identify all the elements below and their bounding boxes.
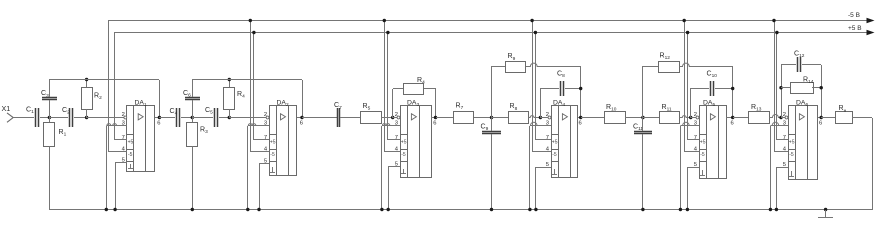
resistor R7: [454, 112, 474, 124]
junction C9 on ground rail: [490, 208, 493, 211]
stage1 feedback wire C3 to DA1 output: [49, 79, 159, 81]
resistor R9: [506, 62, 526, 73]
wire R12 right segment with hop over supply: [680, 63, 733, 66]
junction DA1 pin5 on ground rail: [113, 208, 116, 211]
svg-text:7: 7: [264, 135, 267, 141]
junction R14 right on vertical: [820, 86, 823, 89]
svg-text:6: 6: [157, 120, 160, 126]
capacitor C7: [337, 108, 339, 127]
wire DA4 inverting node up to C8: [540, 88, 542, 118]
op-amp DA4 pin 7 wire to +5V rail: [535, 139, 551, 141]
op-amp DA4 inverting input bubble pin 2: [548, 116, 551, 119]
svg-text:7: 7: [395, 135, 398, 141]
op-amp DA3 output pin 6 wire: [431, 117, 436, 119]
op-amp DA2 inverting input bubble pin 2: [266, 116, 269, 119]
svg-text:7: 7: [783, 135, 786, 141]
wire R4 stage3 down to output node: [435, 89, 437, 118]
junction R4 tap on signal: [228, 116, 231, 119]
wire R7 to node C: [474, 117, 492, 119]
op-amp DA6 inverting input bubble pin 2: [785, 116, 788, 119]
wire DA6 output to Rn: [821, 117, 836, 119]
node DA4 output junction: [579, 116, 582, 119]
svg-text:-5: -5: [128, 152, 133, 158]
wire R12 left segment: [643, 66, 658, 68]
junction R2 tap on signal: [85, 116, 88, 119]
op-amp DA6 ground cell symbol: [791, 171, 793, 176]
svg-text:+5: +5: [552, 140, 558, 146]
svg-text:6: 6: [731, 120, 734, 126]
op-amp DA2 pin 4 wire to -5V rail: [250, 151, 269, 153]
junction R14 left on vertical: [779, 86, 782, 89]
svg-text:+5: +5: [700, 140, 706, 146]
connector X1 chevron: [7, 113, 13, 122]
wire R12 feedback down to DA5 output node: [732, 66, 734, 118]
wire node D to R11: [643, 117, 659, 119]
wire R9 left segment: [492, 66, 505, 68]
capacitor C6: [185, 97, 200, 99]
capacitor C5: [214, 108, 216, 127]
junction DA5 supply on -5V rail: [683, 19, 686, 22]
node DA6 output junction: [820, 116, 823, 119]
ground symbol: [825, 210, 827, 218]
svg-text:6: 6: [433, 120, 436, 126]
wire Rn to right corner: [852, 117, 872, 119]
op-amp DA1 amplifier triangle symbol: [138, 114, 143, 120]
op-amp DA3 amplifier triangle symbol: [411, 114, 416, 120]
stage1 feedback wire down to output node: [159, 80, 161, 118]
svg-text:X1: X1: [2, 104, 11, 113]
op-amp DA6 output pin 6 wire: [818, 117, 821, 119]
wire C8 left segment: [540, 88, 559, 90]
power rail +5V arrowhead: [867, 30, 875, 36]
capacitor C10: [710, 81, 712, 96]
op-amp DA2 ground cell symbol: [272, 167, 274, 172]
wire R14 left segment: [781, 87, 791, 89]
svg-text:7: 7: [694, 135, 697, 141]
resistor R3: [187, 123, 198, 147]
node B junction: [191, 116, 194, 119]
op-amp DA6 amplifier triangle symbol: [799, 114, 804, 120]
wire node B to C5: [192, 117, 213, 119]
op-amp DA5 pin 3 wire to ground rail: [680, 122, 699, 125]
op-amp DA2 pin 5 wire to ground rail: [259, 163, 269, 165]
wire inverting node to DA5 pin 2: [691, 117, 697, 119]
op-amp DA3 ground cell symbol: [403, 169, 405, 174]
op-amp DA6 pin 7 wire to +5V rail: [777, 139, 788, 141]
op-amp DA5 pin 7 wire to +5V rail: [688, 139, 699, 141]
wire R13 to DA6 inverting node with hop: [769, 115, 781, 118]
op-amp DA4 amplifier triangle symbol: [562, 114, 567, 120]
op-amp DA2 pin 3 wire to ground rail: [248, 124, 269, 126]
resistor R14: [791, 83, 814, 94]
wire node A to C2: [49, 117, 68, 119]
wire C6 to stage2 feedback wire: [192, 80, 194, 97]
node DA5 inverting input junction: [689, 116, 692, 119]
power rail +5V net: [115, 32, 870, 34]
junction DA6 pin5 on ground rail: [775, 208, 778, 211]
junction R3 on ground rail: [191, 208, 194, 211]
resistor R8: [509, 112, 529, 124]
junction C11 on ground rail: [641, 208, 644, 211]
wire DA5 output to R13: [733, 117, 749, 119]
svg-text:+5: +5: [128, 140, 134, 146]
wire C7 to R5: [340, 117, 360, 119]
capacitor C8: [560, 81, 562, 96]
svg-text:+5: +5: [401, 140, 407, 146]
wire C8 right segment: [565, 88, 581, 90]
wire C12 down to DA6 output node: [821, 65, 823, 118]
capacitor C11: [634, 131, 652, 133]
wire R2 bottom to signal: [86, 109, 88, 118]
wire DA2 output to C7: [302, 117, 337, 119]
stage2 feedback wire C6 to DA2 output: [192, 79, 302, 81]
junction DA3 supply on -5V rail: [383, 19, 386, 22]
svg-text:+5 В: +5 В: [848, 25, 862, 32]
wire R4 stage3 right segment: [424, 88, 436, 90]
junction C8 wire on feedback vertical: [579, 87, 582, 90]
node DA2 output junction: [300, 116, 303, 119]
node DA3 output junction: [434, 116, 437, 119]
op-amp DA2 output pin 6 wire: [297, 117, 302, 119]
wire R4 top to feedback wire: [229, 80, 231, 87]
resistor R11: [660, 112, 680, 124]
op-amp DA5 amplifier triangle symbol: [710, 114, 715, 120]
wire DA6 inverting node up to C12 level: [781, 65, 783, 118]
capacitor C12: [797, 57, 799, 72]
wire R3 to ground rail: [192, 146, 194, 210]
junction DA5 pin3 on ground rail: [679, 208, 682, 211]
wire C9 to ground rail: [491, 134, 493, 210]
junction DA3 pin5 on ground rail: [387, 208, 390, 211]
wire R2 tap to DA1 pin 2: [87, 117, 125, 119]
junction DA4 pin3 on ground rail: [528, 208, 531, 211]
junction DA3 pin3 on ground rail: [380, 208, 383, 211]
capacitor C3: [42, 97, 57, 99]
wire R5 to DA3 inverting node: [381, 117, 393, 119]
wire node C up to R9 wire: [491, 66, 493, 118]
wire R11 to DA5 inverting node with hop: [680, 116, 691, 118]
wire C10 left segment: [691, 88, 709, 90]
op-amp DA1 pin 7 wire to +5V rail: [115, 139, 127, 141]
op-amp DA1 pin 5 wire to ground rail: [115, 162, 127, 164]
op-amp DA3 pin 7 wire to +5V rail: [388, 139, 400, 141]
node DA3 inverting input junction: [391, 116, 394, 119]
junction DA2 pin5 on ground rail: [257, 208, 260, 211]
junction DA2 pin3 on ground rail: [246, 208, 249, 211]
junction DA4 supply on +5V rail: [534, 31, 537, 34]
op-amp DA1 inverting input bubble pin 2: [124, 116, 127, 119]
svg-text:-5: -5: [789, 152, 794, 158]
svg-text:6: 6: [579, 120, 582, 126]
junction DA5 pin5 on ground rail: [686, 208, 689, 211]
op-amp DA3 box: [401, 106, 432, 178]
wire R4 stage3 left segment: [393, 88, 403, 90]
junction R4 on stage2 feedback wire: [228, 78, 231, 81]
wire R9 right segment with hop over supply: [526, 63, 581, 66]
wire node D up to R12 wire: [642, 66, 644, 118]
wire DA4 output to R10: [581, 117, 604, 119]
junction C10 wire on feedback vertical: [731, 87, 734, 90]
junction ground symbol on rail: [824, 208, 827, 211]
wire node B up to C6: [192, 100, 194, 118]
svg-text:7: 7: [546, 135, 549, 141]
wire R9 feedback down to DA4 output node: [580, 66, 582, 118]
svg-text:-5: -5: [700, 152, 705, 158]
op-amp DA1 pin 3 wire to ground rail: [106, 124, 127, 126]
svg-text:-5: -5: [270, 152, 275, 158]
junction DA5 supply on +5V rail: [686, 31, 689, 34]
op-amp DA1 pin 4 wire to -5V rail: [109, 151, 127, 153]
junction DA2 supply on -5V rail: [249, 19, 252, 22]
resistor R4 stage3: [404, 84, 424, 95]
wire C4 to node B: [181, 117, 192, 119]
op-amp DA6 pin 5 wire to ground rail: [776, 167, 788, 169]
junction DA6 pin3 on ground rail: [769, 208, 772, 211]
wire node C to R8: [492, 117, 508, 119]
resistor R5: [361, 112, 382, 124]
junction DA1 pin3 on ground rail: [105, 208, 108, 211]
wire inverting node to DA4 pin 2: [540, 117, 549, 119]
op-amp DA4 ground cell symbol: [554, 169, 556, 174]
wire R10 to node D: [625, 117, 643, 119]
node DA1 output junction: [158, 116, 161, 119]
op-amp DA1 ground cell symbol: [130, 164, 132, 168]
op-amp DA2 box: [270, 106, 297, 176]
svg-text:+5: +5: [270, 140, 276, 146]
svg-text:6: 6: [300, 120, 303, 126]
node C junction: [490, 116, 493, 119]
wire R4 tap to DA2 pin 2: [229, 117, 268, 119]
svg-text:6: 6: [819, 120, 822, 126]
wire DA3 output to R7: [436, 117, 453, 119]
resistor R1: [44, 123, 55, 147]
wire C1 to node A: [40, 117, 49, 119]
svg-text:5: 5: [546, 162, 549, 168]
junction DA6 supply on +5V rail: [775, 31, 778, 34]
svg-text:7: 7: [122, 135, 125, 141]
op-amp DA5 ground cell symbol: [702, 170, 704, 175]
capacitor C9: [482, 131, 501, 133]
wire inverting node to DA6 pin 2: [781, 117, 786, 119]
wire right corner down to ground rail: [872, 118, 874, 210]
junction DA2 supply on +5V rail: [252, 31, 255, 34]
op-amp DA5 pin 5 wire to ground rail: [687, 167, 699, 169]
op-amp DA2 pin 7 wire to +5V rail: [254, 139, 269, 141]
wire node C down to C9: [491, 118, 493, 131]
node A junction: [48, 116, 51, 119]
op-amp DA4 pin 5 wire to ground rail: [536, 167, 551, 169]
svg-text:-5: -5: [401, 152, 406, 158]
wire node B down to R3: [192, 118, 194, 122]
junction DA3 supply on +5V rail: [386, 31, 389, 34]
wire R1 to ground rail: [49, 146, 51, 210]
svg-text:-5 В: -5 В: [848, 12, 860, 19]
node DA5 output junction: [731, 116, 734, 119]
wire C11 to ground rail: [642, 134, 644, 210]
resistor R4 stage2: [224, 88, 235, 110]
node DA6 inverting input junction: [779, 116, 782, 119]
wire node A up to C3: [49, 100, 51, 118]
wire C12 right segment: [802, 64, 821, 66]
op-amp DA3 inverting input bubble pin 2: [397, 116, 400, 119]
capacitor C4: [176, 108, 178, 127]
op-amp DA2 amplifier triangle symbol: [281, 114, 286, 120]
wire X1 to C1: [13, 117, 34, 119]
op-amp DA6 pin 3 wire to ground rail: [770, 122, 788, 125]
wire R2 top to feedback wire: [86, 80, 88, 87]
wire node D down to C11: [642, 118, 644, 131]
op-amp DA4 pin 4 wire to -5V rail: [532, 151, 551, 153]
wire DA5 inverting node up to C10: [690, 88, 692, 118]
junction R2 on feedback wire: [85, 78, 88, 81]
op-amp DA3 pin 4 wire to -5V rail: [384, 151, 400, 153]
wire node A down to R1: [49, 118, 51, 122]
op-amp DA1 box: [127, 106, 155, 172]
node D junction: [641, 116, 644, 119]
wire C3 to feedback wire: [49, 80, 51, 97]
resistor R12: [659, 62, 680, 73]
junction DA4 supply on -5V rail: [530, 19, 533, 22]
resistor R2: [82, 88, 93, 110]
op-amp DA5 pin 4 wire to -5V rail: [684, 151, 699, 153]
op-amp DA3 pin 3 wire to ground rail: [382, 124, 400, 126]
wire C2 to R2 tap: [74, 117, 87, 119]
wire inverting node to DA3 pin 2: [393, 117, 398, 119]
op-amp DA4 output pin 6 wire: [578, 117, 581, 119]
wire R8 to DA4 inverting node with hop: [529, 116, 541, 118]
op-amp DA3 pin 5 wire to ground rail: [388, 166, 400, 168]
wire C10 right segment: [715, 88, 733, 90]
capacitor C1: [35, 108, 37, 127]
op-amp DA4 pin 3 wire to ground rail: [530, 122, 551, 125]
junction DA4 pin5 on ground rail: [534, 208, 537, 211]
op-amp DA6 box: [789, 106, 818, 180]
power rail -5V net: [109, 20, 870, 22]
op-amp DA5 inverting input bubble pin 2: [696, 116, 699, 119]
resistor R13: [749, 112, 770, 124]
wire R14 right segment: [812, 87, 821, 89]
svg-text:+5: +5: [789, 140, 795, 146]
svg-text:5: 5: [694, 162, 697, 168]
junction DA6 supply on -5V rail: [772, 19, 775, 22]
power rail -5V arrowhead: [867, 18, 875, 24]
op-amp DA5 box: [700, 106, 727, 179]
op-amp DA1 output pin 6 wire: [155, 117, 159, 119]
wire inverting node up to R4 stage3: [392, 89, 394, 118]
wire C5 to R4 tap: [219, 117, 229, 119]
resistor Rn load: [836, 112, 853, 124]
wire DA1 output to C4: [159, 117, 175, 119]
op-amp DA6 pin 4 wire to -5V rail: [774, 151, 788, 153]
op-amp DA4 box: [552, 106, 578, 178]
op-amp DA5 output pin 6 wire: [726, 117, 733, 119]
svg-text:-5: -5: [552, 152, 557, 158]
wire C12 left segment: [781, 64, 796, 66]
capacitor C2: [69, 108, 71, 127]
stage2 feedback wire down to output node: [302, 80, 304, 118]
wire R4 bottom to signal: [229, 109, 231, 118]
node DA4 inverting input junction: [539, 116, 542, 119]
ground rail bottom net: [49, 209, 872, 211]
resistor R10: [605, 112, 626, 124]
